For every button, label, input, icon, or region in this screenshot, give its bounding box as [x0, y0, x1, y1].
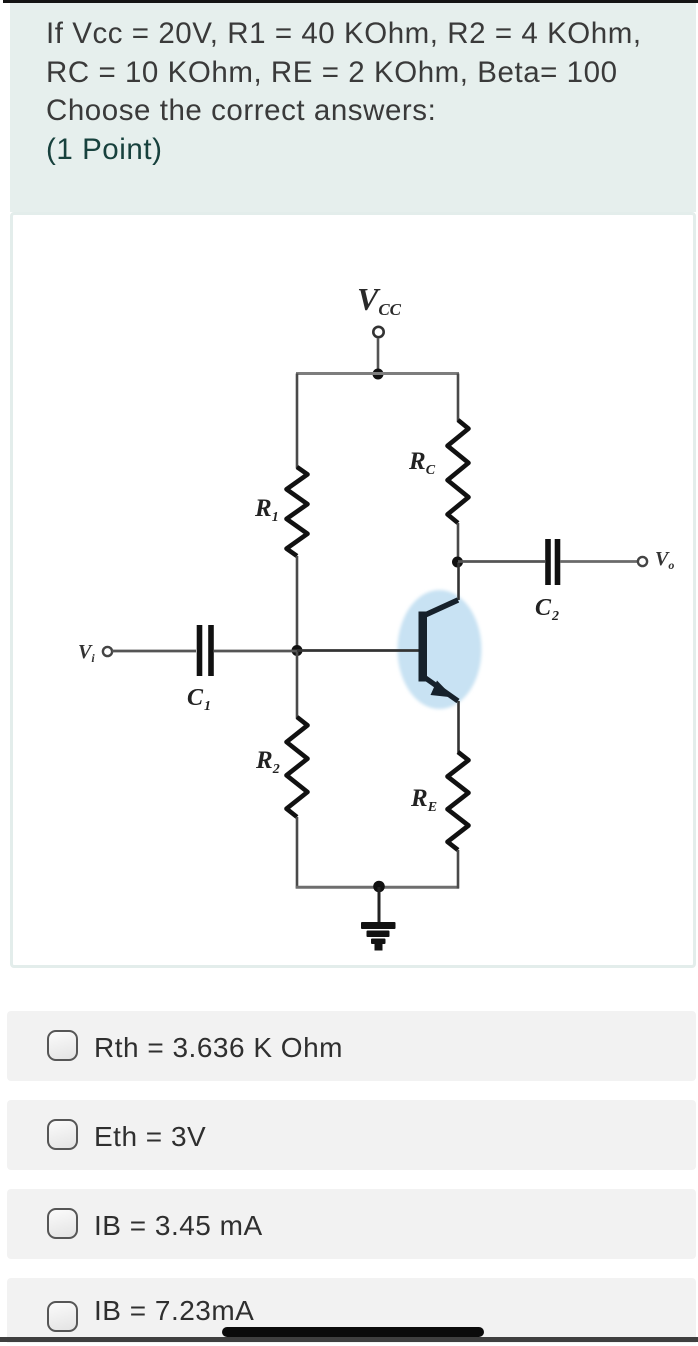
wire left branch upper: [296, 374, 299, 469]
answer option 2: [7, 1100, 696, 1170]
junction Vcc node: [373, 369, 384, 380]
junction base node: [292, 645, 303, 656]
wire collector upper: [457, 523, 460, 562]
wire input left: [112, 650, 196, 653]
wire emitter vertical: [457, 701, 460, 753]
capacitor C1: [200, 625, 212, 676]
svg-text:VCC: VCC: [357, 281, 402, 319]
resistor RE: [448, 752, 469, 850]
wire left branch lower: [296, 651, 299, 718]
svg-text:R2: R2: [255, 747, 280, 777]
circuit panel: [10, 212, 696, 968]
wire left branch bottom: [296, 817, 299, 889]
transistor Q1 highlight: [398, 590, 482, 709]
svg-text:Vi: Vi: [78, 641, 95, 665]
junction ground node: [373, 881, 385, 893]
answer option 1: [7, 1011, 696, 1081]
capacitor C2: [548, 539, 558, 585]
wire collector vertical: [457, 562, 460, 600]
wire output left: [458, 560, 545, 563]
transistor Q1: [419, 600, 459, 701]
resistor R2: [287, 717, 308, 817]
svg-text:C1: C1: [187, 685, 211, 714]
marker line under option 4: [222, 1327, 484, 1338]
node Vcc terminal: [373, 327, 383, 337]
wire base: [297, 649, 421, 652]
svg-text:R1: R1: [254, 495, 279, 525]
node Vo terminal: [638, 557, 647, 566]
bottom dark bar: [0, 1337, 698, 1342]
top black bar: [3, 0, 698, 3]
wire ground stub: [378, 887, 381, 924]
node Vi terminal: [103, 647, 112, 656]
svg-text:RE: RE: [410, 785, 437, 815]
svg-text:Vo: Vo: [655, 548, 674, 572]
answer option 3: [7, 1189, 696, 1259]
resistor RC: [448, 420, 469, 523]
ground: [361, 922, 396, 951]
question header background: [10, 3, 696, 212]
resistor R1: [287, 467, 308, 556]
wire top rail: [296, 372, 459, 375]
wire bottom rail: [296, 886, 459, 889]
wire right branch bottom: [457, 850, 460, 889]
wire output right: [560, 560, 637, 563]
answer option 4: [7, 1278, 696, 1343]
svg-text:RC: RC: [408, 448, 436, 478]
wire Vcc stub: [377, 338, 380, 371]
question text: [46, 15, 691, 169]
wire right branch top: [457, 374, 460, 422]
junction collector node: [452, 557, 463, 568]
wire left branch mid: [296, 556, 299, 651]
wire input right: [214, 650, 297, 653]
svg-text:C2: C2: [535, 595, 559, 624]
